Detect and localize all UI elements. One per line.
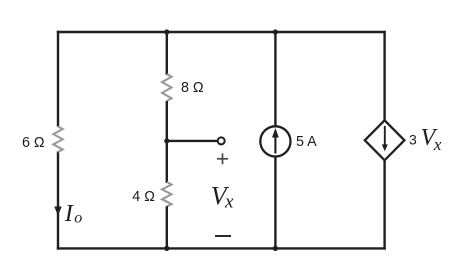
svg-text:x: x bbox=[433, 135, 442, 154]
node junction dot top 5A bbox=[273, 29, 278, 34]
node junction dot bottom mid bbox=[164, 246, 169, 251]
wire right rail lower bbox=[383, 160, 385, 250]
svg-text:4 Ω: 4 Ω bbox=[132, 189, 155, 205]
arrow Io current arrowhead bbox=[54, 207, 62, 216]
resistor 6ohm bbox=[53, 127, 62, 153]
wire top rail bbox=[57, 31, 386, 33]
current source 5A arrow bbox=[272, 128, 279, 154]
label Vx bbox=[211, 182, 234, 213]
wire left rail upper bbox=[57, 31, 59, 127]
wire left rail lower bbox=[57, 152, 59, 250]
svg-text:I: I bbox=[64, 200, 75, 227]
wire middle branch mid segment bbox=[166, 101, 168, 183]
dependent source arrow down bbox=[382, 126, 388, 151]
svg-text:x: x bbox=[224, 192, 234, 213]
node junction dot bottom 5A bbox=[273, 246, 278, 251]
wire 5A branch lower bbox=[274, 157, 276, 250]
svg-text:8 Ω: 8 Ω bbox=[181, 80, 204, 96]
label Io bbox=[64, 200, 83, 227]
wire right rail upper bbox=[383, 31, 385, 122]
current source 5A circle bbox=[260, 126, 290, 156]
svg-text:6 Ω: 6 Ω bbox=[22, 135, 45, 151]
node Vx open terminal bbox=[218, 137, 225, 144]
label plus sign bbox=[217, 153, 228, 164]
label 3 Vx bbox=[409, 125, 442, 154]
wire middle branch lower stub bbox=[166, 206, 168, 249]
label minus sign bbox=[215, 235, 231, 237]
svg-text:5 A: 5 A bbox=[296, 134, 317, 150]
resistor 4ohm bbox=[162, 182, 171, 207]
dependent source diamond 3Vx bbox=[365, 120, 405, 160]
svg-text:o: o bbox=[74, 209, 82, 226]
node junction dot top mid bbox=[164, 29, 169, 34]
svg-text:3: 3 bbox=[409, 132, 417, 148]
node junction dot tap bbox=[164, 138, 169, 143]
resistor 8ohm bbox=[162, 74, 171, 101]
wire middle branch upper stub bbox=[166, 32, 168, 75]
wire Vx tap bbox=[167, 140, 218, 142]
wire 5A branch upper bbox=[274, 32, 276, 127]
wire bottom rail bbox=[57, 247, 386, 249]
